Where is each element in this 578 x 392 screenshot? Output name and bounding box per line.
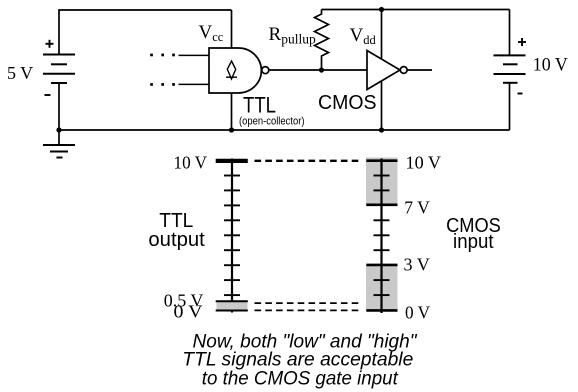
open-collector diamond symbol — [227, 61, 235, 79]
TTL scale volt ticks — [224, 176, 240, 296]
output bubble U2 — [400, 67, 407, 74]
ground — [43, 145, 75, 158]
CMOS scale 10V tick — [366, 159, 397, 162]
wire CMOS power vertical (Vdd to ground rail, behind gate) — [381, 10, 383, 131]
wire NAND input pin 2 — [179, 83, 210, 85]
CMOS input scale gray band 7-10V — [366, 158, 398, 205]
svg-text:TTL: TTL — [243, 93, 276, 118]
wire U2 output stub — [407, 69, 432, 71]
wire ground stem — [58, 130, 60, 145]
svg-text:10 V: 10 V — [533, 56, 569, 76]
wire top-right rail Vdd — [322, 9, 510, 11]
TTL scale gray band 0-0.5V — [217, 301, 248, 310]
CMOS input scale axis — [380, 159, 382, 314]
CMOS input scale gray band 0-3V — [366, 265, 398, 310]
CMOS scale 3V tick — [366, 264, 397, 267]
svg-text:0 V: 0 V — [405, 303, 430, 323]
svg-text:CMOS: CMOS — [318, 92, 377, 114]
dashed line 0.5V level — [255, 302, 361, 304]
wire right battery positive lead — [509, 10, 511, 56]
battery B1 5V — [43, 55, 75, 84]
wire right battery negative lead — [509, 83, 511, 130]
svg-text:(open-collector): (open-collector) — [239, 116, 305, 128]
TTL output scale axis — [231, 159, 233, 313]
wire TTL power vertical (Vcc to ground rail, behind gate) — [231, 10, 233, 130]
resistor R pullup — [315, 10, 329, 71]
TTL scale 10V top bar — [216, 159, 248, 163]
output bubble U1 — [262, 67, 269, 74]
junction Vdd rail / resistor rail — [379, 7, 384, 12]
node input ellipsis row 2 — [150, 83, 175, 86]
junction CMOS ground — [379, 127, 384, 132]
svg-text:5 V: 5 V — [7, 63, 33, 83]
node input ellipsis row 1 — [150, 54, 175, 57]
dashed line 10V level — [255, 160, 361, 162]
gate U1 TTL open-collector NAND — [209, 48, 269, 93]
svg-text:7 V: 7 V — [404, 197, 430, 217]
label - (B2 negative) — [518, 93, 523, 95]
svg-text:to the CMOS gate input: to the CMOS gate input — [202, 367, 400, 389]
svg-text:0 V: 0 V — [174, 301, 203, 321]
svg-text:3 V: 3 V — [404, 255, 430, 275]
wire bottom ground rail — [59, 129, 510, 131]
gate U2 CMOS buffer — [367, 51, 407, 90]
TTL scale 0V tick — [216, 310, 248, 312]
wire top-left rail Vcc — [59, 10, 232, 54]
svg-text:input: input — [453, 231, 494, 253]
svg-text:output: output — [148, 229, 205, 251]
label + (B1 positive) — [46, 40, 54, 48]
battery B2 10V — [494, 55, 526, 82]
junction output node / resistor — [319, 67, 324, 72]
junction TTL ground — [229, 127, 234, 132]
CMOS scale volt ticks — [374, 176, 390, 296]
CMOS scale 0V tick — [366, 309, 397, 312]
wire U1 output to U2 input — [268, 69, 367, 71]
wire left battery negative lead — [58, 83, 60, 130]
CMOS scale 7V tick — [366, 204, 397, 207]
dashed line 0V level — [255, 309, 361, 311]
TTL scale 0.5V tick — [216, 300, 248, 302]
label - (B1 negative) — [45, 94, 51, 96]
svg-text:10 V: 10 V — [174, 153, 208, 173]
label + (B2 positive) — [518, 38, 526, 46]
svg-text:10 V: 10 V — [406, 153, 442, 173]
wire NAND input pin 1 — [179, 54, 210, 56]
junction ground rail / battery — [56, 127, 61, 132]
